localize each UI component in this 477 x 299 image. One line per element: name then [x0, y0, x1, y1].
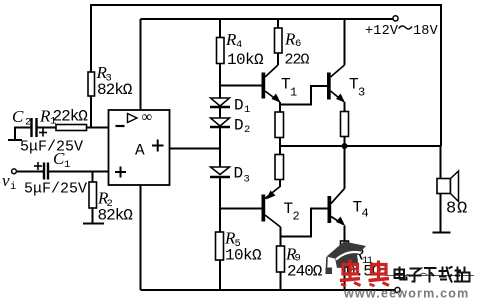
svg-text:22kΩ: 22kΩ	[53, 108, 89, 126]
wire T4 emitter to R11	[344, 226, 346, 242]
resistor R8	[275, 155, 284, 180]
wire T1 emitter to T3 base riser	[280, 86, 327, 105]
svg-text:1: 1	[244, 104, 250, 116]
wire speaker top	[440, 146, 442, 179]
resistor R6	[275, 28, 283, 53]
svg-text:82kΩ: 82kΩ	[98, 207, 134, 225]
svg-text:D: D	[234, 97, 244, 115]
svg-text:2: 2	[293, 210, 300, 224]
wire opamp output	[170, 148, 222, 150]
char zai	[439, 270, 449, 272]
capacitor C1	[44, 163, 48, 180]
wire R3 bottom to inverting node	[90, 96, 92, 128]
speaker box	[437, 179, 451, 194]
char zhan	[457, 267, 459, 271]
svg-text:10kΩ: 10kΩ	[227, 51, 264, 69]
resistor R2	[89, 182, 97, 208]
terminal -V circle	[395, 287, 400, 292]
svg-text:1: 1	[290, 86, 297, 100]
svg-text:240Ω: 240Ω	[287, 263, 323, 281]
watermark red bug 2	[369, 261, 390, 287]
wire T3 emitter to R10	[344, 102, 346, 112]
svg-text:5μF/25V: 5μF/25V	[20, 139, 83, 156]
wire D3 to T2 base node	[219, 178, 221, 232]
wire speaker bottom	[440, 194, 442, 233]
wire node to T4 collector	[344, 146, 346, 189]
capacitor C2	[32, 118, 37, 137]
wire C2 to R1	[37, 127, 56, 129]
wire inverting input	[87, 127, 109, 129]
ground bar speaker	[433, 231, 451, 233]
ground bar R2	[83, 222, 104, 224]
resistor R4	[217, 38, 225, 64]
resistor R9	[277, 246, 285, 272]
wire bias chain R4 top	[219, 19, 221, 38]
svg-text:82kΩ: 82kΩ	[97, 81, 133, 99]
resistor R5	[216, 232, 224, 260]
svg-text:8Ω: 8Ω	[446, 200, 468, 219]
wire R10 to node	[344, 137, 346, 147]
resistor R11	[341, 241, 349, 267]
svg-text:2: 2	[244, 124, 250, 136]
transistor T4	[328, 189, 346, 226]
char dian	[395, 270, 405, 279]
wire D2 to output tap	[219, 128, 221, 167]
svg-text:18V: 18V	[413, 24, 439, 39]
svg-text:3: 3	[244, 174, 250, 186]
transistor T3	[327, 65, 345, 103]
wire T2 base	[220, 208, 262, 210]
svg-text:v: v	[2, 171, 10, 190]
op-amp output plus	[152, 140, 164, 152]
svg-text:3: 3	[358, 86, 365, 100]
resistor R1	[56, 125, 87, 131]
speaker horn	[451, 171, 459, 202]
wire R9 bottom	[280, 272, 282, 290]
plus polarity C1	[34, 162, 42, 170]
wire T2 collector down	[280, 227, 282, 246]
svg-text:6: 6	[295, 38, 301, 50]
wire R2 bottom	[92, 208, 94, 223]
transistor T2	[262, 187, 281, 228]
watermark graduation cap	[326, 242, 367, 275]
resistor R7	[275, 112, 284, 138]
wire output node line	[280, 145, 441, 147]
wire opamp V+ pin	[140, 19, 142, 110]
wire C1 to opamp +	[48, 171, 109, 173]
wire inner +V rail	[141, 18, 394, 20]
svg-text:A: A	[135, 142, 145, 160]
svg-text:C: C	[12, 107, 24, 126]
wire opamp V- pin	[140, 185, 142, 290]
wire R11 bottom	[344, 267, 346, 290]
wire T1 base	[220, 85, 262, 87]
svg-text:4: 4	[362, 207, 369, 221]
wire top feedback rail	[90, 4, 442, 6]
terminal vi circle	[12, 169, 17, 174]
watermark hidden -12V text line	[385, 273, 474, 279]
wire R3 column top	[90, 5, 92, 72]
wire T1 emitter to R7	[279, 102, 281, 112]
wire R2 top	[92, 172, 94, 183]
diode D2	[210, 118, 230, 127]
ground bar C2	[8, 139, 22, 141]
svg-text:i: i	[10, 181, 16, 193]
wire R5 bottom	[219, 260, 221, 290]
svg-text:D: D	[234, 117, 244, 135]
wire R6 top	[277, 19, 279, 28]
resistor R10	[341, 112, 349, 137]
wire D1-D2	[219, 108, 221, 118]
svg-text:5μF/25V: 5μF/25V	[24, 181, 87, 198]
wire R4 bottom to D1	[219, 64, 221, 99]
wire right feedback vertical	[440, 5, 442, 146]
op-amp noninverting plus	[115, 167, 126, 178]
wire C2 left to ground	[15, 128, 31, 140]
char zi	[410, 269, 421, 274]
diode D1	[210, 98, 230, 107]
svg-text:10kΩ: 10kΩ	[225, 247, 262, 265]
svg-text:22Ω: 22Ω	[285, 52, 310, 69]
resistor R3	[88, 72, 95, 96]
svg-text:+12V: +12V	[365, 24, 399, 39]
watermark text dianzi xiazaizhan	[395, 267, 470, 283]
svg-text:D: D	[234, 165, 244, 183]
wire T2 collector to T4 base riser	[281, 209, 328, 237]
wire R8 to T2 emitter	[279, 180, 281, 188]
svg-text:1: 1	[64, 159, 70, 171]
wire R7 to node	[279, 138, 281, 155]
node output junction dot	[342, 143, 348, 149]
svg-text:4: 4	[236, 39, 242, 51]
diode D3	[210, 167, 230, 177]
transistor T1	[262, 65, 281, 103]
svg-text:www.eeworm.com: www.eeworm.com	[343, 286, 469, 299]
wire vi to C1	[17, 171, 45, 173]
wire T3 collector column	[344, 19, 346, 65]
char xia	[424, 267, 437, 269]
wire bottom -V rail	[141, 289, 396, 291]
watermark red bug 1	[340, 260, 361, 287]
wire R6 bottom	[277, 53, 279, 65]
svg-text:∞: ∞	[142, 110, 153, 126]
op-amp U1 box	[109, 110, 170, 185]
terminal +V circle	[393, 16, 398, 21]
plus polarity C2	[39, 129, 47, 137]
op-amp minus	[116, 125, 125, 127]
svg-text:2: 2	[25, 117, 31, 129]
op-amp triangle symbol	[128, 114, 138, 123]
